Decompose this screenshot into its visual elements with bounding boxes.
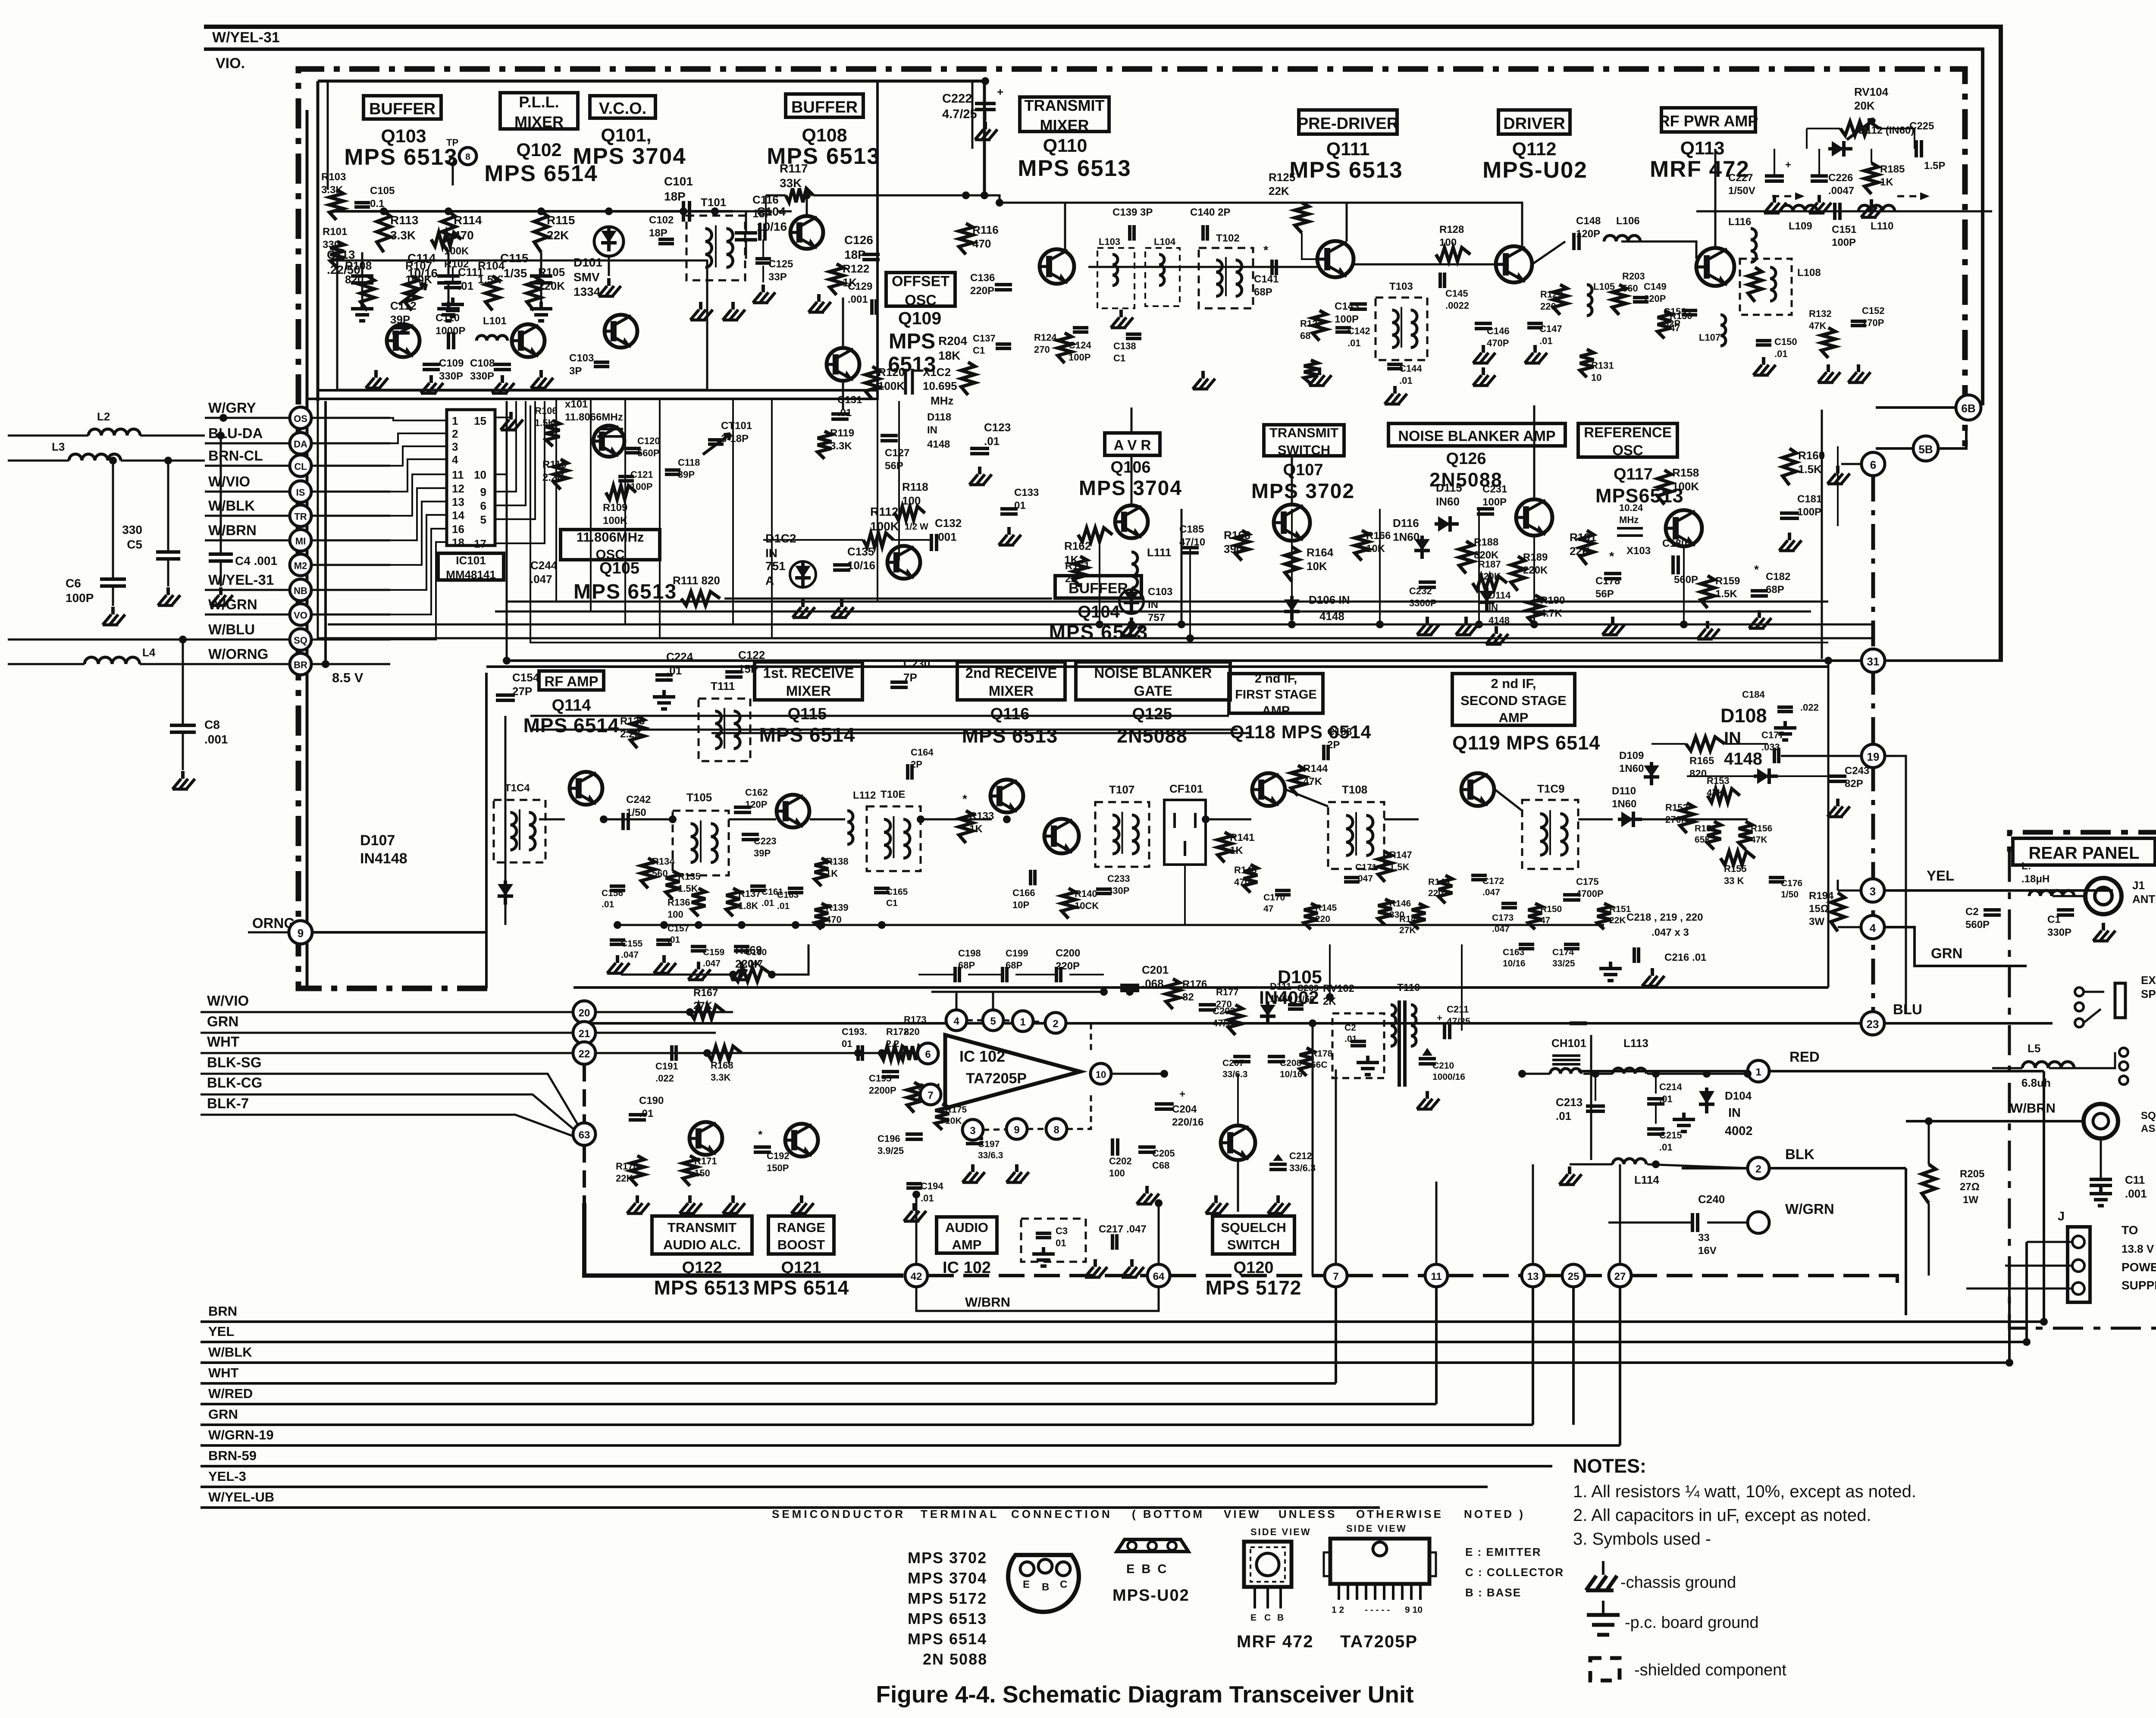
svg-text:C1: C1	[2047, 914, 2061, 925]
resistor R141	[1218, 832, 1232, 862]
svg-text:100P: 100P	[1335, 314, 1359, 325]
ground audio1	[636, 1195, 639, 1203]
ground ic1	[971, 1164, 975, 1172]
svg-text:BLU-DA: BLU-DA	[208, 425, 263, 441]
capacitor C103	[594, 361, 609, 364]
svg-text:Q121: Q121	[781, 1259, 821, 1277]
svg-text:C163: C163	[1503, 947, 1524, 957]
svg-text:Q112: Q112	[1512, 139, 1557, 160]
svg-text:25: 25	[1568, 1271, 1579, 1282]
wire audio top border	[590, 1022, 918, 1025]
resistor R188	[1459, 541, 1473, 574]
svg-text:22K: 22K	[1570, 545, 1590, 558]
capacitor C126	[862, 253, 880, 256]
capacitor C121	[618, 475, 634, 478]
svg-text:13: 13	[452, 495, 464, 508]
svg-text:4002: 4002	[1725, 1124, 1753, 1138]
svg-text:W/YEL-31: W/YEL-31	[208, 572, 274, 588]
capacitor C143	[1350, 302, 1367, 306]
transistor Q117	[1666, 510, 1702, 546]
crystal X101	[597, 428, 623, 430]
svg-text:C204: C204	[1172, 1104, 1197, 1115]
svg-text:SEMICONDUCTOR: SEMICONDUCTOR	[772, 1508, 906, 1520]
capacitor C140	[1201, 225, 1205, 241]
resistor R166	[1355, 530, 1369, 561]
svg-text:2.2: 2.2	[886, 1038, 899, 1049]
svg-text:3-18P: 3-18P	[721, 433, 749, 445]
svg-text:C1: C1	[886, 898, 898, 908]
svg-text:MPS 6514: MPS 6514	[759, 724, 856, 746]
svg-text:6B: 6B	[1961, 402, 1975, 415]
node 20	[573, 1001, 595, 1023]
svg-text:BUFFER: BUFFER	[369, 100, 436, 118]
svg-text:.01: .01	[837, 407, 852, 419]
capacitor C102	[658, 238, 674, 241]
capacitor C145	[1438, 273, 1442, 288]
svg-text:C231: C231	[1482, 483, 1507, 495]
ground q120a	[1214, 1195, 1218, 1203]
resistor R107	[405, 276, 419, 310]
svg-text:.01: .01	[1344, 1034, 1357, 1044]
svg-text:1 2: 1 2	[1332, 1605, 1344, 1615]
svg-text:*: *	[1609, 550, 1614, 564]
svg-text:MPS 5172: MPS 5172	[908, 1589, 987, 1607]
capacitor C225	[1915, 140, 1918, 157]
svg-text:YEL-3: YEL-3	[208, 1469, 246, 1484]
dash-dot right column	[1871, 476, 1875, 1023]
svg-text:3: 3	[970, 1125, 975, 1137]
capacitor C118	[665, 468, 680, 472]
wire pwr top	[1522, 1073, 1550, 1075]
svg-text:MPS 6514: MPS 6514	[523, 714, 620, 737]
capacitor C223	[742, 833, 759, 836]
capacitor C215	[1647, 1127, 1664, 1131]
svg-text:TRANSMIT: TRANSMIT	[1025, 97, 1105, 114]
svg-text:T108: T108	[1342, 783, 1367, 796]
svg-text:R194: R194	[1809, 890, 1834, 902]
svg-text:100K: 100K	[405, 273, 432, 286]
connector node NB	[290, 579, 311, 601]
svg-text:.01: .01	[1399, 375, 1413, 386]
wire pins bus	[931, 991, 1104, 993]
svg-text:T105: T105	[686, 791, 712, 804]
svg-text:R164: R164	[1307, 546, 1334, 559]
capacitor C212	[1269, 1163, 1287, 1166]
svg-text:33/6.3: 33/6.3	[978, 1151, 1003, 1160]
svg-text:C155: C155	[621, 939, 643, 949]
svg-text:MPS 6514: MPS 6514	[908, 1630, 987, 1648]
resistor R136	[692, 888, 705, 916]
capacitor C132	[930, 534, 933, 551]
capacitor C138	[1126, 332, 1141, 336]
svg-text:MRF 472: MRF 472	[1237, 1632, 1314, 1651]
wire R117 bus	[813, 195, 1427, 203]
node 6B	[1956, 395, 1981, 420]
svg-text:16V: 16V	[1698, 1245, 1717, 1257]
svg-text:R132: R132	[1809, 308, 1832, 319]
node 11	[1425, 1264, 1448, 1287]
svg-text:11: 11	[452, 468, 464, 481]
section box V.C.O.	[590, 96, 655, 118]
node 7b	[1325, 1264, 1347, 1287]
wire bot riser wyelub	[1966, 1288, 1967, 1342]
svg-text:R135: R135	[678, 871, 701, 882]
svg-text:NB: NB	[294, 585, 307, 596]
diode D1C2	[801, 562, 805, 586]
svg-text:R106: R106	[535, 405, 558, 416]
svg-text:R123: R123	[620, 715, 645, 727]
resistor R111	[681, 592, 720, 605]
wire 27 up	[1619, 1164, 1621, 1264]
resistor R169	[733, 968, 772, 981]
svg-text:.0022: .0022	[1445, 300, 1469, 311]
svg-text:4148: 4148	[927, 439, 950, 450]
capacitor C205	[1138, 1145, 1156, 1149]
svg-text:7: 7	[928, 1090, 933, 1101]
svg-text:C125: C125	[768, 258, 793, 270]
capacitor C131	[831, 412, 849, 416]
capacitor C164	[906, 764, 909, 780]
transistor Q119	[1461, 773, 1494, 806]
svg-text:100K: 100K	[1672, 480, 1699, 493]
ground tx2	[1201, 371, 1205, 379]
svg-text:.047: .047	[1482, 887, 1500, 897]
svg-text:GRN: GRN	[1931, 945, 1962, 961]
svg-text:R103: R103	[321, 171, 346, 183]
resistor R144	[1291, 765, 1305, 796]
svg-text:IN60: IN60	[1436, 495, 1460, 508]
resistor R109	[606, 486, 636, 499]
inductor L103	[1112, 254, 1118, 285]
svg-text:C224: C224	[666, 650, 693, 663]
svg-text:T107: T107	[1109, 783, 1134, 796]
wire TR to IC101	[311, 515, 390, 517]
svg-text:R148: R148	[1399, 914, 1421, 924]
transformer T105	[673, 811, 729, 875]
legend MPS-U02 package	[1117, 1539, 1188, 1552]
section box OFFSET OSC	[886, 273, 955, 306]
svg-text:100K: 100K	[878, 379, 905, 392]
svg-text:C215: C215	[1659, 1130, 1682, 1141]
transistor Q101 vco	[605, 315, 637, 348]
wire pin4 up	[956, 992, 958, 1010]
transistor Q108	[790, 216, 823, 249]
resistor R161	[1073, 556, 1087, 586]
svg-text:L2: L2	[97, 410, 110, 423]
svg-text:6.8uh: 6.8uh	[2021, 1076, 2051, 1089]
capacitor C216	[1633, 947, 1636, 963]
svg-text:B: B	[1042, 1581, 1049, 1593]
resistor R135	[666, 871, 680, 899]
svg-text:.01: .01	[1774, 348, 1788, 359]
wire GRN	[1884, 927, 2027, 966]
svg-text:C1: C1	[973, 345, 985, 356]
transformer T102	[1199, 248, 1253, 308]
capacitor C122	[725, 670, 743, 674]
svg-text:R188: R188	[1474, 536, 1498, 548]
svg-text:MI: MI	[295, 536, 306, 546]
ext speaker jack	[2115, 983, 2125, 1018]
wire avr vert	[1131, 618, 1132, 624]
svg-text:C123: C123	[984, 421, 1011, 434]
resistor R147	[1378, 852, 1392, 882]
svg-text:21: 21	[579, 1028, 590, 1040]
svg-text:OFFSET: OFFSET	[892, 273, 950, 289]
capacitor C173	[1501, 902, 1517, 905]
svg-text:C5: C5	[127, 538, 142, 551]
wire 22 right	[595, 1052, 917, 1054]
section box NOISE BLANKER GATE	[1076, 662, 1230, 700]
inductor L5	[2022, 1062, 2074, 1068]
capacitor C243	[1829, 774, 1846, 778]
svg-text:GRN: GRN	[207, 1013, 238, 1029]
capacitor C152	[1851, 320, 1866, 323]
svg-text:C211: C211	[1447, 1004, 1469, 1015]
svg-text:220K: 220K	[735, 957, 762, 970]
svg-text:M2: M2	[294, 560, 307, 571]
pin 8 IC102	[1046, 1119, 1067, 1139]
capacitor C200	[1055, 967, 1058, 982]
svg-text:W/VIO: W/VIO	[208, 473, 250, 489]
svg-text:27K: 27K	[1399, 925, 1416, 935]
wire squelch drop	[1237, 1160, 1239, 1212]
inductor L113	[1613, 1068, 1646, 1074]
svg-text:MPS 5172: MPS 5172	[1206, 1276, 1302, 1299]
svg-text:C109: C109	[439, 357, 464, 369]
svg-text:BLU: BLU	[1893, 1001, 1922, 1017]
svg-text:MIXER: MIXER	[514, 113, 564, 131]
svg-text:1/50: 1/50	[1297, 994, 1315, 1004]
svg-text:.047 x 3: .047 x 3	[1651, 927, 1689, 938]
svg-text:270P: 270P	[1862, 317, 1884, 328]
resistor R175	[935, 1104, 949, 1130]
svg-text:100P: 100P	[1797, 506, 1821, 518]
svg-text:BR: BR	[294, 659, 307, 670]
wire stair	[390, 515, 447, 590]
resistor R138	[815, 858, 828, 886]
svg-text:RANGE: RANGE	[777, 1220, 825, 1235]
resistor R119	[818, 431, 831, 459]
wire mid bus 4	[495, 611, 1811, 613]
svg-text:.001: .001	[2125, 1187, 2147, 1200]
resistor R170	[630, 1156, 644, 1186]
wire VO to IC101	[311, 614, 390, 616]
svg-text:+: +	[997, 85, 1003, 98]
svg-text:W/YEL-UB: W/YEL-UB	[208, 1489, 274, 1505]
svg-text:1.5K: 1.5K	[1389, 862, 1410, 872]
ground nb2	[1464, 617, 1468, 624]
crystal X103	[1617, 527, 1643, 530]
svg-text:MPS 6513: MPS 6513	[654, 1276, 750, 1299]
capacitor C135	[833, 563, 850, 567]
capacitor C110	[447, 332, 450, 349]
transformer T110	[1398, 1000, 1401, 1087]
capacitor C210	[1419, 1057, 1436, 1060]
svg-text:64: 64	[1153, 1271, 1165, 1282]
node 13	[1522, 1264, 1544, 1287]
wire osc area bus	[506, 401, 508, 661]
svg-text:4: 4	[1870, 922, 1876, 934]
wire 42-64 dash	[928, 1274, 1147, 1277]
svg-text:VO: VO	[294, 610, 307, 621]
wire stair	[390, 433, 447, 443]
ground audio5	[912, 1203, 916, 1211]
capacitor C109	[423, 363, 440, 366]
wire rx bottom bus2	[573, 986, 1828, 989]
svg-text:CT101: CT101	[721, 420, 752, 432]
wire q111 top	[1302, 233, 1317, 259]
wire bot riser 25	[1572, 1287, 1575, 1425]
svg-text:R189: R189	[1523, 552, 1548, 563]
svg-text:330P: 330P	[1107, 885, 1129, 896]
notes shielded symbol	[1590, 1658, 1620, 1680]
svg-text:W/GRN-19: W/GRN-19	[208, 1427, 274, 1442]
svg-text:C8: C8	[204, 718, 220, 731]
svg-text:C165: C165	[886, 887, 908, 897]
capacitor C115	[530, 274, 552, 278]
svg-text:W/BLU: W/BLU	[208, 621, 255, 637]
svg-text:1: 1	[1020, 1016, 1025, 1028]
svg-text:R105: R105	[538, 266, 565, 279]
wire Q108 up	[806, 195, 808, 216]
svg-text:C138: C138	[1113, 341, 1136, 351]
svg-text:IS: IS	[296, 487, 305, 498]
svg-text:MPS 6514: MPS 6514	[753, 1276, 849, 1299]
svg-text:560: 560	[1622, 283, 1638, 294]
svg-text:BUFFER: BUFFER	[791, 98, 858, 116]
capacitor C191	[670, 1045, 674, 1061]
svg-text:.068: .068	[1142, 977, 1164, 990]
svg-text:C216 .01: C216 .01	[1664, 952, 1706, 963]
svg-text:B : BASE: B : BASE	[1465, 1586, 1521, 1599]
svg-text:.01: .01	[1556, 1110, 1571, 1122]
connector node IS	[290, 481, 311, 502]
svg-text:W/BLK: W/BLK	[208, 498, 255, 514]
capacitor C116	[758, 223, 761, 241]
svg-text:R120: R120	[878, 366, 905, 379]
svg-text:C201: C201	[1142, 963, 1169, 976]
svg-text:D111: D111	[1270, 981, 1291, 992]
svg-text:( BOTTOM: ( BOTTOM	[1132, 1508, 1204, 1520]
capacitor C208	[1268, 1055, 1285, 1058]
capacitor C157	[656, 938, 672, 942]
ground audio2	[688, 1195, 692, 1203]
svg-text:TP: TP	[446, 137, 458, 148]
svg-text:2.2K: 2.2K	[620, 728, 642, 740]
section box 2nd IF SECOND STAGE AMP	[1452, 674, 1575, 725]
svg-text:E : EMITTER: E : EMITTER	[1465, 1546, 1542, 1558]
svg-text:150P: 150P	[767, 1163, 789, 1173]
capacitor C141	[1270, 260, 1274, 275]
svg-text:TA7205P: TA7205P	[966, 1070, 1027, 1087]
ground nb1	[1426, 617, 1429, 624]
wire rx block right	[1781, 755, 1863, 757]
svg-text:C190: C190	[639, 1095, 664, 1107]
svg-text:MHz: MHz	[1619, 514, 1639, 525]
svg-text:R205: R205	[1960, 1168, 1984, 1180]
svg-text:R108: R108	[345, 259, 372, 272]
svg-text:C139 3P: C139 3P	[1112, 207, 1153, 218]
resistor R174	[907, 1082, 921, 1113]
wire offset chain	[842, 298, 844, 348]
section box AUDIO AMP	[937, 1217, 997, 1253]
wire t110 right	[1461, 944, 1463, 1031]
ground t110	[1426, 1091, 1429, 1099]
svg-text:R125: R125	[1269, 171, 1295, 184]
svg-text:R169: R169	[735, 944, 762, 956]
wire 13 up	[1532, 1164, 1534, 1264]
svg-text:TRANSMIT: TRANSMIT	[1269, 425, 1338, 440]
inductor L105	[1587, 285, 1592, 316]
dash-dot section border top	[298, 69, 1965, 988]
resistor R131	[1580, 349, 1594, 377]
svg-text:18P: 18P	[844, 248, 866, 261]
capacitor C163	[788, 887, 803, 890]
shield C2	[1332, 1013, 1384, 1078]
svg-text:C149: C149	[1644, 281, 1667, 292]
diode D104	[1705, 1088, 1708, 1113]
wire stair	[390, 474, 447, 516]
capacitor C162	[734, 806, 751, 809]
diode D115	[1435, 522, 1459, 526]
transistor Q115	[777, 795, 809, 828]
section box BUFFER Q108	[786, 94, 863, 117]
capacitor C108	[494, 363, 511, 366]
wire stair	[390, 446, 447, 466]
resistor R108	[360, 276, 374, 310]
ground pwr pcb	[1682, 1113, 1686, 1119]
svg-text:.047: .047	[621, 950, 639, 960]
svg-text:1334: 1334	[573, 285, 601, 298]
wire bot riser yel3	[1905, 1168, 1907, 1315]
svg-text:17: 17	[474, 537, 486, 550]
svg-text:C171: C171	[1355, 862, 1377, 872]
capacitor C146	[1475, 322, 1492, 325]
svg-text:C101: C101	[664, 175, 693, 188]
svg-text:560P: 560P	[1965, 919, 1990, 931]
svg-text:C210: C210	[1432, 1061, 1454, 1071]
wire rx block top	[485, 733, 488, 988]
svg-text:IN: IN	[1728, 1106, 1741, 1120]
capacitor C177	[1773, 748, 1776, 763]
svg-text:C175: C175	[1576, 876, 1599, 887]
svg-text:MPS: MPS	[889, 329, 935, 353]
inductor L116	[1751, 229, 1756, 262]
inductor L111	[1131, 552, 1138, 588]
svg-text:AUDIO: AUDIO	[945, 1220, 988, 1235]
svg-text:C168: C168	[1327, 726, 1352, 738]
svg-text:D101: D101	[573, 256, 602, 269]
svg-text:C132: C132	[935, 517, 962, 530]
svg-text:330: 330	[122, 523, 142, 536]
svg-text:4148: 4148	[1724, 749, 1762, 768]
resistor R204	[961, 362, 975, 395]
wire bot riser 11	[1435, 1287, 1438, 1404]
svg-text:R191: R191	[1570, 531, 1596, 544]
svg-text:BRN-CL: BRN-CL	[208, 448, 263, 464]
resistor R171	[683, 1156, 697, 1186]
svg-text:L110: L110	[1871, 220, 1893, 232]
ground ic3	[1145, 1186, 1149, 1194]
svg-text:C242: C242	[626, 794, 651, 806]
transistor Q102	[512, 324, 545, 357]
capacitor C174	[1564, 943, 1579, 946]
transistor Q126	[1516, 499, 1552, 536]
diode D108	[1754, 774, 1778, 778]
wire stair	[390, 502, 447, 565]
svg-text:W/GRY: W/GRY	[208, 400, 256, 416]
svg-text:MIXER: MIXER	[989, 683, 1034, 699]
